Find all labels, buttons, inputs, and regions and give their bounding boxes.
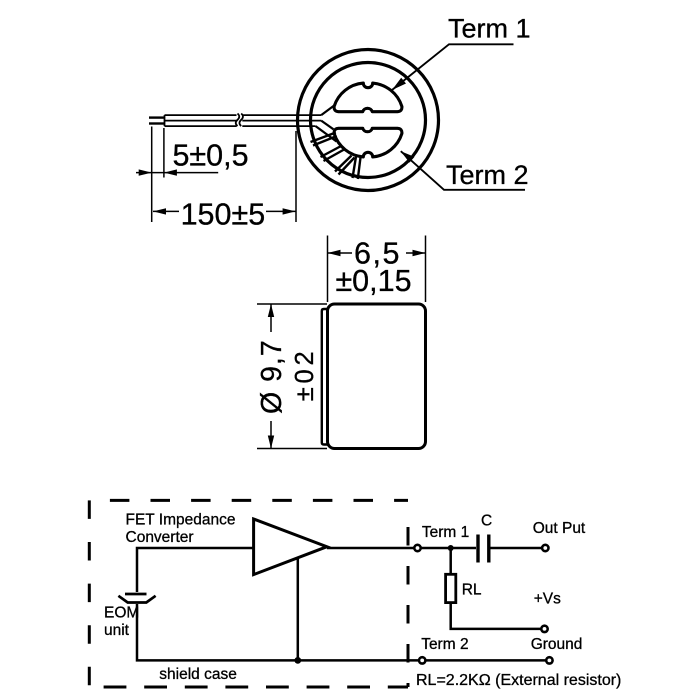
svg-text:Ground: Ground xyxy=(531,636,583,653)
dim 6,5 extension line right xyxy=(425,236,427,303)
svg-text:Converter: Converter xyxy=(126,529,194,546)
resistor RL xyxy=(446,574,456,602)
solder pad Term 2 (lower) xyxy=(334,128,402,157)
wire capacitor to Out Put xyxy=(491,547,543,550)
svg-text:Term 1: Term 1 xyxy=(448,14,531,44)
crimp fan lines xyxy=(311,133,361,180)
junction node dot xyxy=(448,545,454,551)
capacitor C xyxy=(476,535,479,563)
svg-text:+Vs: +Vs xyxy=(534,591,561,608)
shield case dashed box: right edge xyxy=(407,527,410,687)
terminal Out Put xyxy=(542,545,548,551)
svg-text:Term 1: Term 1 xyxy=(422,524,469,541)
dim line 150±5 xyxy=(153,210,179,212)
dim 5±0,5 extension line A xyxy=(151,127,153,223)
mic case inner circle xyxy=(311,63,426,178)
wire Term 2 to Ground xyxy=(426,659,546,662)
svg-text:Term 2: Term 2 xyxy=(421,636,468,653)
mic case outer circle xyxy=(298,50,439,191)
leader Term 2 xyxy=(401,151,525,190)
wire neck to upper pad xyxy=(321,105,335,116)
wire EOM to FET input xyxy=(137,548,254,592)
terminal Ground xyxy=(546,657,552,663)
mic body side view xyxy=(328,304,426,449)
shield case dashed box: top edge xyxy=(110,499,408,502)
front rim strip xyxy=(322,309,329,445)
svg-text:150±5: 150±5 xyxy=(181,197,266,231)
svg-text:RL: RL xyxy=(462,582,482,599)
svg-text:shield case: shield case xyxy=(159,666,237,683)
svg-text:5±0,5: 5±0,5 xyxy=(172,139,248,173)
svg-text:Term 2: Term 2 xyxy=(446,160,529,190)
wire neck to lower pad xyxy=(321,121,333,130)
dim 6,5 extension line left xyxy=(327,236,329,303)
svg-text:RL=2.2KΩ (External resistor): RL=2.2KΩ (External resistor) xyxy=(416,672,621,689)
dim line 6,5 xyxy=(328,252,353,254)
dim line 5±0,5 xyxy=(136,172,218,174)
svg-text:FET Impedance: FET Impedance xyxy=(126,512,236,529)
wire RL to +Vs terminal xyxy=(451,603,541,629)
leader Term 1 xyxy=(392,44,514,90)
cable break marks xyxy=(236,114,243,127)
lead wire lower (stripped) xyxy=(149,122,165,124)
wire Term 1 to capacitor xyxy=(421,547,476,550)
wire FET output to Term 1 xyxy=(327,547,414,550)
svg-text:Ø 9,7: Ø 9,7 xyxy=(256,339,288,414)
junction dot on shield rail xyxy=(294,657,301,664)
wire junction to RL xyxy=(449,548,452,574)
solder pad Term 1 (upper) xyxy=(334,83,402,112)
cable jacket left segment xyxy=(165,115,237,126)
svg-text:C: C xyxy=(481,512,492,529)
wire EOM bottom to shield rail xyxy=(137,604,422,660)
lead wire upper (stripped) xyxy=(149,116,165,118)
cable jacket right segment xyxy=(242,115,321,126)
wire triangle bottom to shield rail xyxy=(297,559,300,661)
dim Ø9,7 extension line bottom xyxy=(257,448,327,450)
svg-text:±02: ±02 xyxy=(291,348,319,402)
svg-text:Out Put: Out Put xyxy=(533,520,586,537)
terminal +Vs xyxy=(541,626,547,632)
dim line Ø9,7 vertical xyxy=(270,304,272,332)
svg-text:±0,15: ±0,15 xyxy=(335,264,411,298)
dim 5±0,5 extension line B xyxy=(163,128,165,178)
svg-text:EOM: EOM xyxy=(104,605,139,622)
dim Ø9,7 extension line top xyxy=(257,303,327,305)
FET amplifier triangle xyxy=(254,519,327,575)
shield case dashed box: left edge xyxy=(88,500,91,687)
EOM unit element (electret capsule) xyxy=(125,593,147,596)
svg-text:unit: unit xyxy=(104,622,130,639)
wire neck to lower pad arc xyxy=(316,126,337,141)
dim 150±5 extension line right xyxy=(295,131,297,222)
shield case dashed box: bottom edge xyxy=(104,686,408,689)
terminal Term 1 xyxy=(414,545,420,551)
terminal Term 2 xyxy=(419,657,425,663)
